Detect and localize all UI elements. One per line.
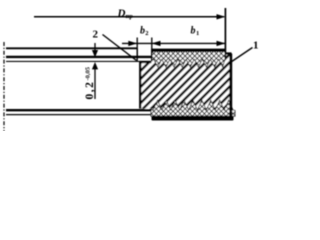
arrowhead b2 left (outside, pointing right) bbox=[128, 41, 137, 46]
bottom braid strip (cross-hatch, zigzag top) bbox=[151, 100, 235, 116]
extension line b2 right / b1 left bbox=[151, 38, 153, 62]
dimension line D (top) bbox=[34, 16, 224, 18]
label 0,2-0.05 (rotated) bbox=[84, 66, 96, 99]
arrowhead down (tip on tube top surface) bbox=[92, 50, 98, 57]
svg-text:2: 2 bbox=[93, 29, 99, 41]
winding right edge border bbox=[229, 54, 232, 121]
dimension line b2/b1 bbox=[122, 42, 225, 44]
tube outer layer top line bbox=[6, 47, 137, 49]
svg-text:b: b bbox=[191, 26, 196, 37]
tube bottom inner thick line bbox=[6, 109, 152, 111]
svg-text:2: 2 bbox=[145, 30, 148, 37]
winding main body (diagonal hatch) bbox=[140, 54, 232, 111]
thickness dimension stem below bbox=[94, 66, 96, 99]
svg-text:пр: пр bbox=[126, 13, 134, 20]
arrowhead D right bbox=[217, 14, 226, 19]
top braid strip top border bbox=[152, 49, 226, 52]
arrowhead b1 right (pointing right) bbox=[217, 41, 226, 46]
tube bottom outer thin line bbox=[6, 114, 152, 116]
svg-text:D: D bbox=[117, 7, 126, 19]
arrowhead b1 left (pointing left) bbox=[152, 41, 161, 46]
svg-text:0,2: 0,2 bbox=[84, 81, 96, 100]
extension line right (for D and b1) bbox=[224, 8, 226, 53]
leader line to part 1 bbox=[231, 48, 253, 63]
axis centerline (dash-dot, left edge) bbox=[3, 42, 5, 131]
coating inner line (top) bbox=[6, 60, 152, 62]
svg-text:1: 1 bbox=[253, 40, 259, 52]
top braid strip (cross-hatch, zigzag bottom) bbox=[152, 49, 226, 67]
winding main body outline bbox=[140, 54, 231, 109]
tube top surface line bbox=[6, 56, 152, 58]
leader line to part 2 bbox=[103, 35, 137, 61]
thickness dimension stem above bbox=[94, 43, 96, 53]
svg-text:-0,05: -0,05 bbox=[84, 66, 91, 80]
svg-text:1: 1 bbox=[196, 30, 199, 37]
end face of outer layer at b2 gap bbox=[136, 48, 138, 57]
bottom braid strip bottom border bbox=[152, 116, 234, 121]
arrowhead up (tip on coating inner line) bbox=[92, 62, 98, 69]
extension line b2 left bbox=[136, 38, 138, 62]
